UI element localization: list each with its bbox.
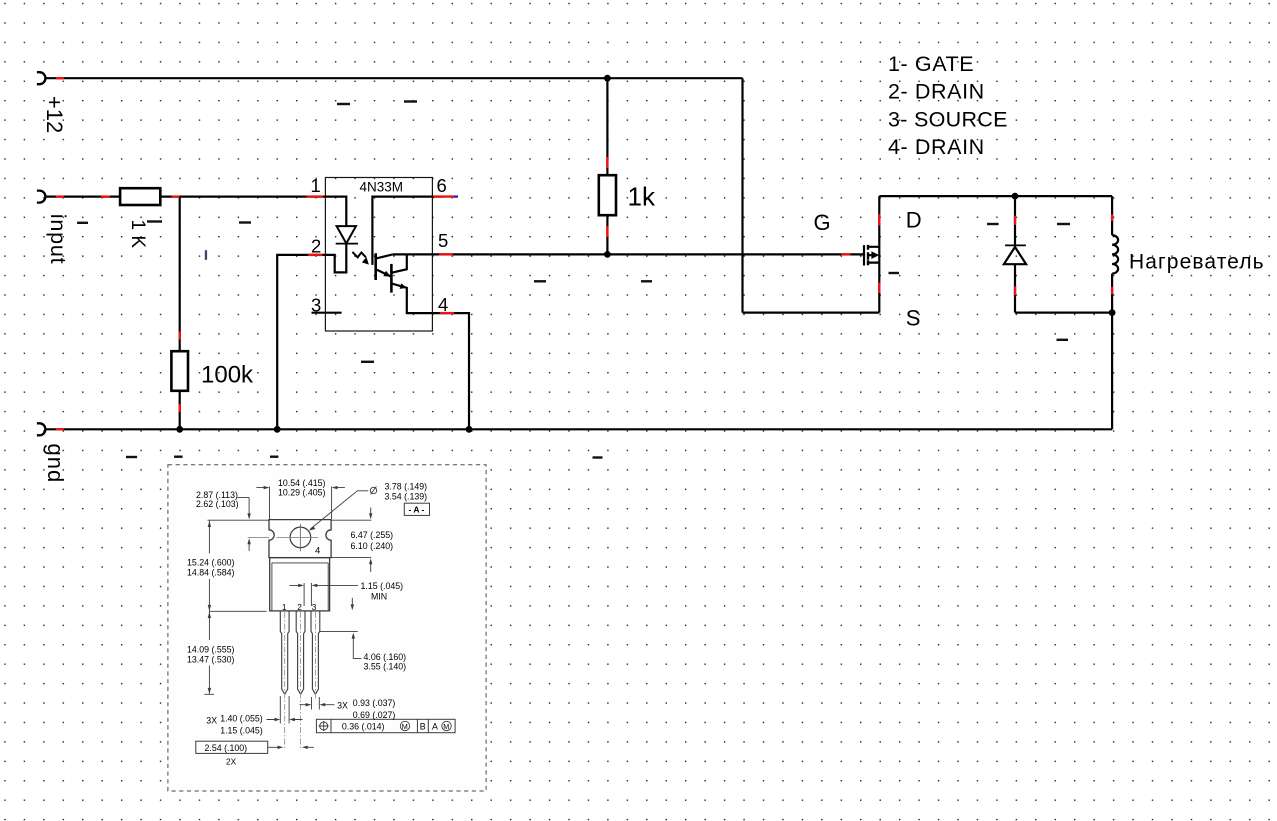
- datum label -A-: [404, 503, 429, 515]
- svg-text:2.54 (.100): 2.54 (.100): [205, 743, 248, 753]
- dash mark l: [270, 456, 278, 458]
- lead center lines: [285, 612, 316, 749]
- svg-text:14.09 (.555): 14.09 (.555): [187, 645, 235, 655]
- dim 0.93 arrows: [300, 697, 335, 710]
- node mark mosfet gate: [841, 253, 851, 255]
- inductor heater coil: [1112, 235, 1118, 273]
- svg-text:0.93 (.037): 0.93 (.037): [353, 698, 396, 708]
- dash mark a: [337, 103, 350, 105]
- wire 100k to gnd: [179, 391, 181, 430]
- svg-text:input: input: [46, 214, 70, 265]
- wire diode bottom to load bottom: [1015, 312, 1112, 314]
- dash mark d: [147, 220, 162, 222]
- dash mark n: [987, 223, 999, 225]
- wire +12 rail: [45, 77, 743, 79]
- svg-text:0.36 (.014): 0.36 (.014): [342, 721, 385, 731]
- wire diode bottom: [1014, 264, 1016, 312]
- wire source bottom horizontal: [743, 312, 880, 314]
- terminal +12: [37, 72, 46, 84]
- dash mark m: [593, 456, 603, 458]
- svg-text:3X: 3X: [206, 715, 217, 725]
- dim 1.15 MIN: [290, 583, 359, 606]
- node mark inductor top: [1111, 214, 1113, 221]
- svg-text:A: A: [432, 721, 438, 731]
- svg-text:15.24 (.600): 15.24 (.600): [187, 558, 235, 568]
- svg-text:2: 2: [311, 236, 321, 257]
- node mark opto pin 5: [439, 253, 453, 255]
- svg-text:1k: 1k: [628, 182, 656, 212]
- node mark 1k bottom: [606, 226, 608, 237]
- terminal input: [37, 191, 46, 203]
- junction gnd / pin2: [274, 426, 281, 433]
- svg-text:1: 1: [282, 602, 287, 612]
- svg-text:gnd: gnd: [43, 444, 68, 484]
- wire load bottom to gnd rail: [1111, 313, 1113, 430]
- lead 1: [280, 611, 289, 694]
- dim 14.09 line: [204, 611, 214, 694]
- node mark source: [878, 283, 880, 294]
- dash mark o: [1057, 223, 1070, 225]
- svg-text:1: 1: [311, 175, 321, 196]
- svg-text:G: G: [814, 210, 831, 235]
- wire opto pin5 to gate: [432, 253, 863, 255]
- junction gnd / pin4: [466, 426, 473, 433]
- resistor 100k: [171, 351, 188, 391]
- wire opto pin6 stub: [432, 196, 444, 198]
- node mark gnd terminal: [56, 428, 64, 430]
- node mark opto pin 1: [307, 195, 324, 197]
- wire inductor top: [1111, 196, 1113, 235]
- svg-text:+12: +12: [42, 96, 67, 133]
- svg-text:4: 4: [438, 294, 448, 315]
- dash mark g: [534, 280, 546, 282]
- svg-text:M: M: [443, 722, 449, 731]
- TO-220 drawing text: [187, 478, 450, 767]
- datasheet white panel: [168, 465, 486, 791]
- hole crosshair: [299, 524, 301, 551]
- dia symbol: [370, 487, 376, 493]
- node mark opto pin 2: [308, 254, 323, 256]
- svg-text:3: 3: [311, 295, 321, 316]
- wire +12 rail corner down to source row: [741, 78, 743, 312]
- node mark +12 terminal: [56, 77, 64, 79]
- wire 1k pullup top: [606, 78, 608, 175]
- node mark after R 1 K: [172, 195, 180, 197]
- mounting hole: [290, 527, 311, 548]
- svg-text:3: 3: [312, 602, 317, 612]
- wire opto pin3 stub: [312, 312, 342, 314]
- node mark inductor bottom: [1111, 287, 1113, 295]
- svg-text:3.78 (.149): 3.78 (.149): [385, 482, 428, 492]
- wire opto pin2 to gnd: [277, 255, 325, 429]
- node mark 100k top: [178, 332, 180, 340]
- resistor 1k pullup: [599, 175, 616, 215]
- wire 100k branch down: [179, 197, 181, 352]
- svg-text:10.54 (.415): 10.54 (.415): [278, 478, 326, 488]
- junction drain rail / diode: [1012, 193, 1019, 200]
- node mark 100k bottom: [178, 404, 180, 412]
- svg-text:6.47 (.255): 6.47 (.255): [351, 530, 394, 540]
- wire 1k pullup bottom: [606, 215, 608, 254]
- svg-text:4.06 (.160): 4.06 (.160): [364, 652, 407, 662]
- svg-text:6: 6: [437, 175, 447, 196]
- svg-text:4N33M: 4N33M: [360, 179, 404, 194]
- optocoupler U1 4N33M box: [325, 178, 432, 332]
- svg-text:2- DRAIN: 2- DRAIN: [888, 80, 985, 104]
- node mark input terminal: [56, 195, 64, 197]
- dash mark p: [1057, 339, 1069, 341]
- svg-text:S: S: [906, 306, 921, 331]
- dim 6.47 arrows: [330, 508, 372, 573]
- node mark before R 1 K: [101, 195, 110, 197]
- wire gnd rail: [45, 428, 1113, 430]
- pin 6 dangling mark: [454, 195, 458, 197]
- dim 10.54 top width: [256, 487, 345, 520]
- dash mark b: [404, 100, 417, 102]
- dash mark i: [361, 361, 374, 363]
- svg-text:MIN: MIN: [371, 592, 387, 602]
- GD&T feature control frame: [316, 719, 455, 732]
- lead 2: [296, 611, 305, 694]
- node mark drain: [878, 214, 880, 225]
- svg-text:1.15 (.045): 1.15 (.045): [361, 581, 404, 591]
- dim 2.87 leader: [238, 497, 250, 551]
- resistor 1 K: [120, 188, 160, 205]
- svg-text:1 K: 1 K: [127, 220, 148, 249]
- svg-text:14.84 (.584): 14.84 (.584): [187, 567, 235, 577]
- junction load bottom / inductor: [1109, 309, 1116, 316]
- svg-text:1.15 (.045): 1.15 (.045): [220, 726, 263, 736]
- junction gnd / 100k: [176, 426, 183, 433]
- svg-text:2.62 (.103): 2.62 (.103): [196, 499, 239, 509]
- svg-text:10.29 (.405): 10.29 (.405): [278, 488, 326, 498]
- svg-text:2X: 2X: [226, 756, 237, 766]
- opto phototransistor Q2: [391, 254, 432, 313]
- svg-text:4- DRAIN: 4- DRAIN: [888, 135, 985, 159]
- svg-text:4: 4: [315, 546, 320, 557]
- dash mark j: [126, 456, 137, 458]
- svg-text:13.47 (.530): 13.47 (.530): [187, 654, 235, 664]
- svg-text:D: D: [906, 208, 922, 233]
- svg-text:5: 5: [438, 230, 448, 251]
- node mark opto pin 4: [440, 312, 454, 314]
- dimension arrowheads: [208, 486, 373, 749]
- node mark 1k top: [606, 157, 608, 168]
- node mark opto pin 6: [434, 195, 455, 197]
- diode flyback: [1004, 245, 1026, 264]
- svg-text:B: B: [420, 721, 426, 731]
- node mark diode top: [1014, 216, 1016, 225]
- wire inductor bottom: [1111, 274, 1113, 313]
- svg-text:100k: 100k: [201, 362, 254, 389]
- TO-220 tab outline: [269, 520, 331, 558]
- svg-text:3- SOURCE: 3- SOURCE: [888, 107, 1008, 131]
- dash mark e: [239, 221, 251, 223]
- wire opto pin4 to gnd: [432, 313, 469, 429]
- node mark diode bottom: [1014, 286, 1016, 295]
- svg-text:Нагреватель: Нагреватель: [1129, 250, 1265, 273]
- svg-text:3X: 3X: [337, 701, 348, 711]
- svg-text:6.10 (.240): 6.10 (.240): [351, 541, 394, 551]
- junction top rail / 1k pullup: [604, 75, 611, 82]
- TO-220 mechanical drawing: [168, 465, 486, 791]
- wire drain rail to load: [879, 195, 1112, 197]
- svg-text:2: 2: [297, 602, 302, 612]
- dash mark h: [641, 280, 652, 282]
- junction pin5 wire / 1k pullup: [604, 251, 611, 258]
- dim 15.24 line: [208, 520, 270, 611]
- svg-text:0.69 (.027): 0.69 (.027): [353, 710, 396, 720]
- lead 3: [311, 611, 320, 694]
- svg-text:3.55 (.140): 3.55 (.140): [364, 662, 407, 672]
- wire diode top: [1014, 196, 1016, 245]
- svg-text:- A -: - A -: [409, 504, 425, 514]
- stray dash marks: [77, 100, 417, 224]
- dim 1.40 arrows: [267, 696, 303, 724]
- wire input to resistor: [45, 196, 121, 198]
- terminal gnd: [37, 423, 46, 435]
- TO-220 body outline: [270, 558, 330, 611]
- svg-text:3.54 (.139): 3.54 (.139): [385, 491, 428, 501]
- dim 2.54 box and leader: [196, 741, 268, 753]
- dim 4.06 leader: [319, 632, 361, 659]
- dash mark k: [174, 456, 183, 458]
- svg-text:1.40 (.055): 1.40 (.055): [220, 714, 263, 724]
- tick mark f: [205, 250, 207, 260]
- opto light arrow: [352, 252, 366, 257]
- svg-text:M: M: [402, 722, 408, 731]
- wire mosfet right rail drain-source: [878, 196, 880, 313]
- hole dia leader: [310, 491, 368, 529]
- dash mark c: [77, 222, 88, 224]
- red connection marks: [56, 78, 1112, 429]
- mosfet Q3: [864, 245, 879, 266]
- dash mark q: [889, 272, 900, 274]
- wire resistor to opto pin 1: [160, 196, 325, 198]
- svg-text:1- GATE: 1- GATE: [888, 52, 974, 76]
- opto LED internal: [325, 197, 358, 273]
- opto phototransistor Q1: [372, 197, 432, 280]
